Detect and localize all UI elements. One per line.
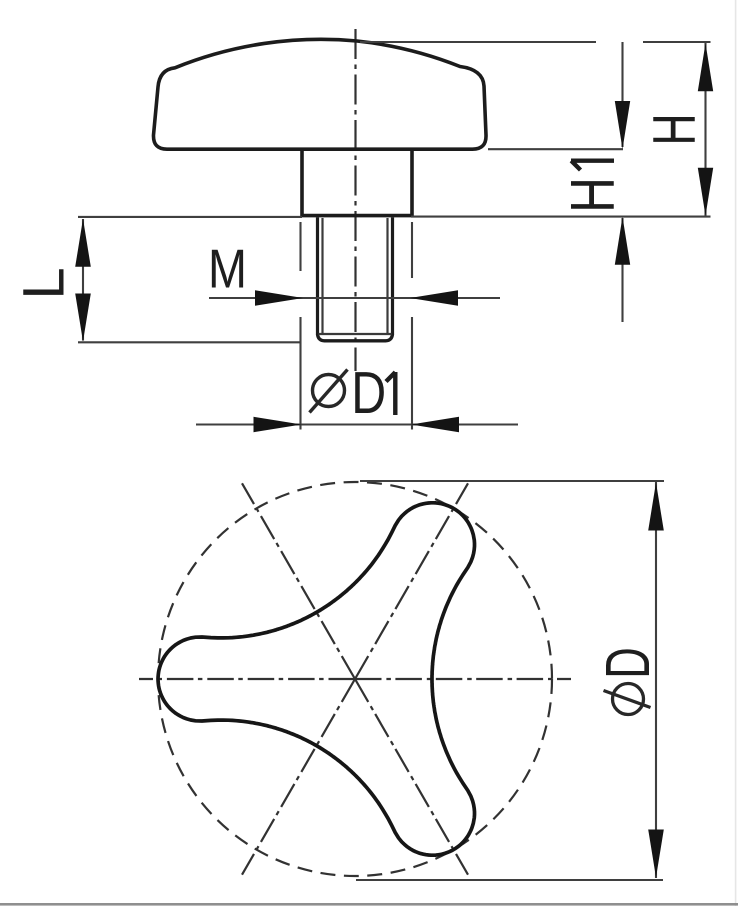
svg-text:H: H bbox=[641, 113, 708, 145]
dimension phiD: vertical line with inside arrows bbox=[655, 482, 657, 878]
extension lines for phiD1 (hub diameter) bbox=[299, 222, 301, 271]
pitch circle (dashed outer diameter) bbox=[158, 482, 552, 876]
knob head (side view outline) bbox=[153, 39, 486, 149]
stud bottom edge with chamfer bbox=[318, 334, 393, 341]
extension line: circle top (to phiD) bbox=[360, 480, 664, 482]
extension line: knob top (to H) bbox=[360, 41, 596, 43]
threaded stud: thread minor diameter lines bbox=[321, 218, 323, 335]
extension line: stud bottom (L bottom) bbox=[78, 341, 301, 343]
centerline vertical (side view axis) bbox=[354, 29, 356, 371]
dimension H: line with inside arrows bbox=[704, 43, 706, 216]
extension line: circle bottom (to phiD) bbox=[356, 879, 663, 881]
extension line: knob head bottom (right, to H1) bbox=[488, 148, 623, 150]
svg-text:D: D bbox=[351, 361, 386, 427]
faint right page edge bbox=[735, 0, 737, 906]
digit 1 of H1 (rotated) bbox=[571, 161, 614, 170]
stud chamfer edge line bbox=[319, 333, 392, 335]
centerline diagonal 120deg bbox=[355, 679, 468, 875]
svg-text:L: L bbox=[12, 267, 77, 299]
dimension H1: line with outside arrows bbox=[621, 42, 623, 147]
extension line: hub bottom (right, to H/H1) bbox=[411, 216, 711, 218]
tri-lobe knob outline (top view) bbox=[158, 503, 475, 855]
hub / neck below head bbox=[302, 151, 412, 216]
digit 1 of phiD1 (CAD style, no foot) bbox=[386, 372, 395, 415]
dimension L: vertical line with inside arrows bbox=[82, 219, 84, 341]
dimension phiD1 line with outside arrows bbox=[196, 423, 518, 425]
centerline horizontal (top view) bbox=[139, 678, 355, 680]
label phiD1 bbox=[313, 375, 345, 407]
bottom page border line bbox=[0, 903, 738, 906]
svg-text:D: D bbox=[594, 647, 662, 678]
svg-text:H: H bbox=[558, 177, 628, 213]
dimension M: leader line across stud with facing arrows bbox=[209, 297, 500, 299]
extension line: hub bottom (left, L top) bbox=[78, 216, 302, 218]
svg-text:M: M bbox=[208, 238, 247, 299]
threaded stud: major diameter lines bbox=[316, 217, 319, 334]
centerline diagonal 60deg bbox=[242, 679, 355, 875]
